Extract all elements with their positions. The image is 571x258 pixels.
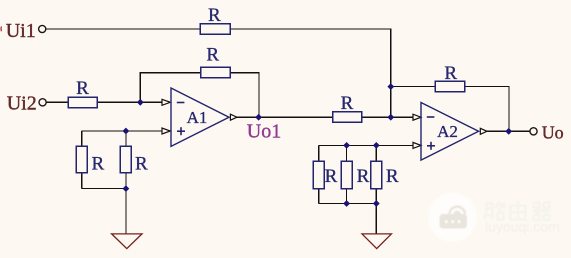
svg-text:R: R bbox=[325, 166, 338, 187]
svg-text:A2: A2 bbox=[437, 122, 458, 141]
svg-text:R: R bbox=[208, 5, 221, 26]
svg-text:Uo1: Uo1 bbox=[247, 121, 281, 143]
svg-text:R: R bbox=[92, 153, 105, 174]
svg-text:R: R bbox=[135, 153, 148, 174]
svg-text:R: R bbox=[386, 166, 399, 187]
svg-text:R: R bbox=[357, 166, 370, 187]
svg-text:R: R bbox=[444, 63, 457, 84]
svg-text:R: R bbox=[76, 78, 89, 99]
svg-text:Ui2: Ui2 bbox=[7, 93, 37, 115]
svg-text:R: R bbox=[206, 44, 219, 65]
svg-text:A1: A1 bbox=[187, 108, 208, 127]
svg-text:R: R bbox=[341, 93, 354, 114]
svg-text:Uo: Uo bbox=[542, 122, 564, 142]
svg-text:Ui1: Ui1 bbox=[6, 20, 36, 42]
svg-text:luyouqi.com: luyouqi.com bbox=[485, 219, 560, 235]
